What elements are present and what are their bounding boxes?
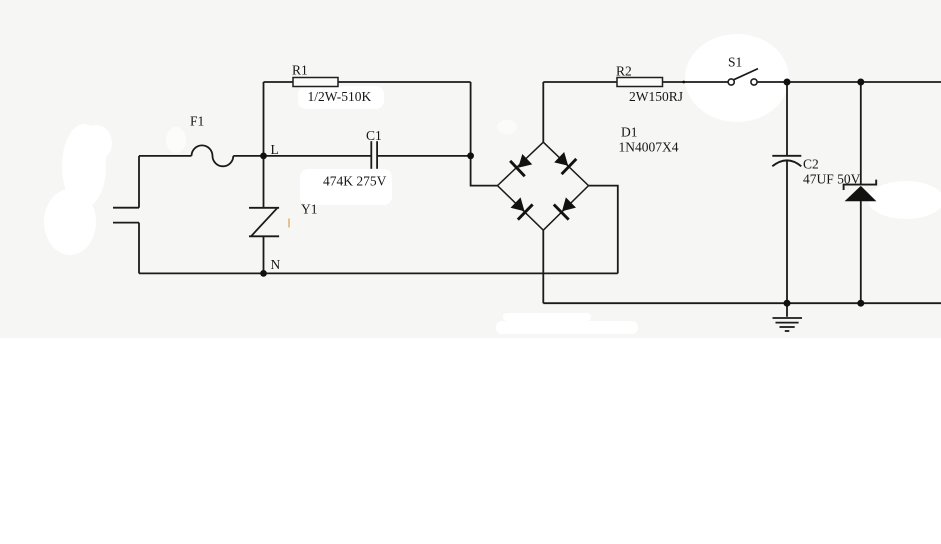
- svg-text:47UF 50V: 47UF 50V: [803, 172, 861, 187]
- svg-text:Y1: Y1: [301, 202, 318, 217]
- svg-text:F1: F1: [190, 113, 204, 128]
- svg-text:C1: C1: [366, 128, 382, 143]
- svg-text:1/2W-510K: 1/2W-510K: [308, 89, 372, 104]
- svg-text:R2: R2: [616, 64, 632, 79]
- svg-text:2W150RJ: 2W150RJ: [629, 89, 683, 104]
- svg-text:R1: R1: [292, 63, 308, 78]
- svg-text:L: L: [271, 142, 279, 157]
- svg-text:D1: D1: [621, 125, 638, 140]
- svg-text:1N4007X4: 1N4007X4: [619, 140, 679, 155]
- svg-text:S1: S1: [728, 55, 742, 70]
- svg-text:474K 275V: 474K 275V: [323, 174, 387, 189]
- svg-text:C2: C2: [803, 157, 819, 172]
- svg-text:N: N: [271, 257, 281, 272]
